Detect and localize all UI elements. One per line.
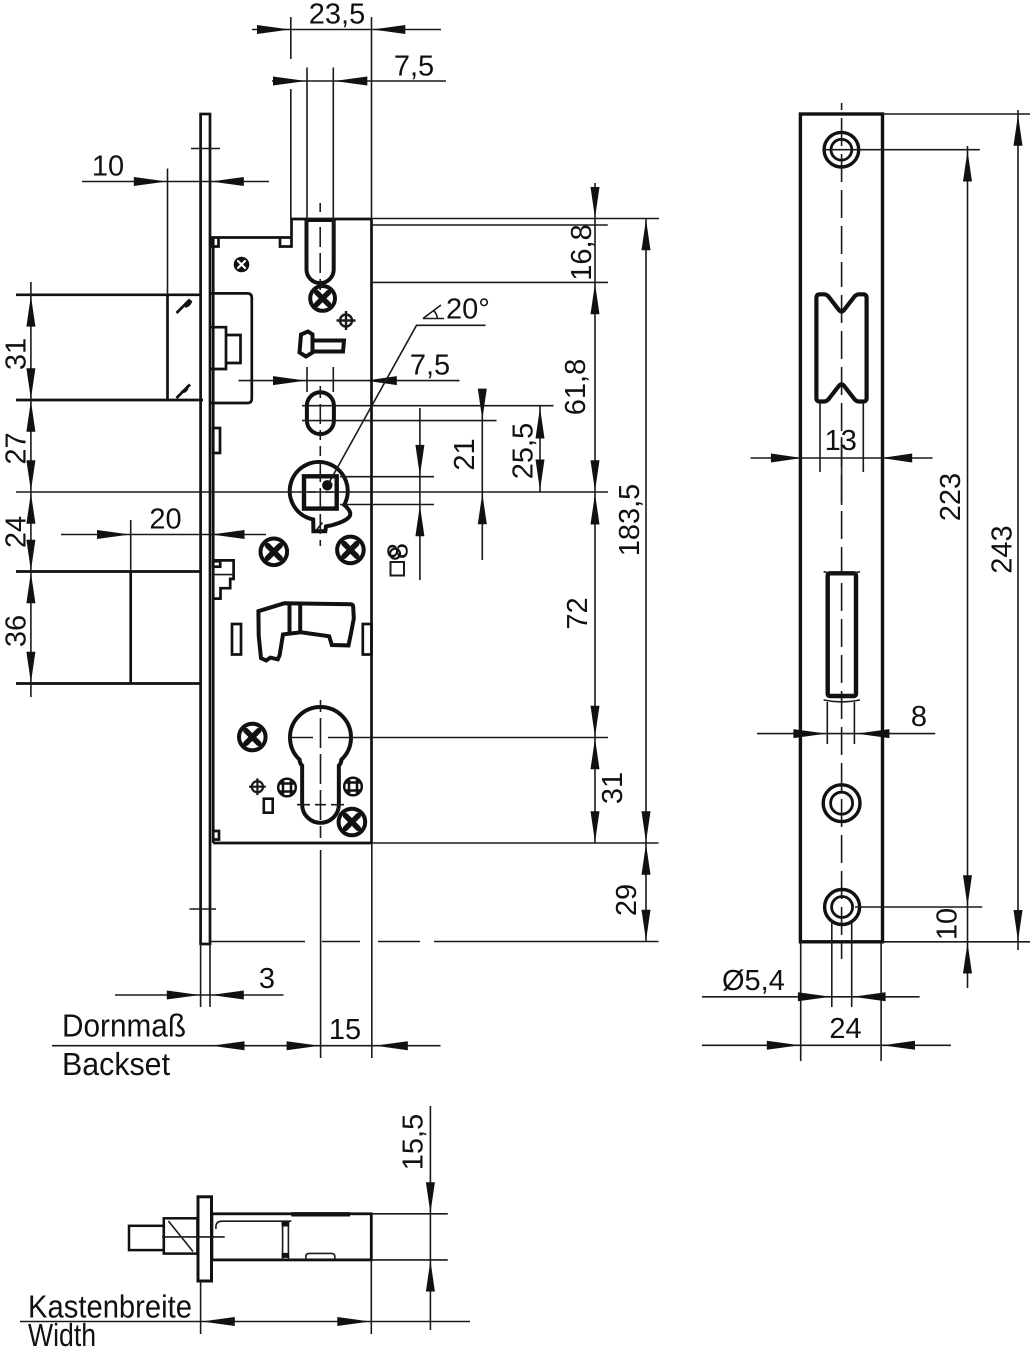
svg-text:7,5: 7,5 [410, 350, 450, 382]
arrow 16,8 top [591, 187, 600, 218]
dim 23,5 line [252, 29, 441, 31]
faceplate bottom cap [199, 943, 211, 946]
cylinder center vertical dashes [320, 700, 322, 838]
screw mid-left (phillips) [261, 539, 288, 566]
change lever divider 2 [298, 604, 302, 632]
svg-text:31: 31 [1, 338, 33, 370]
follower dot [322, 480, 332, 490]
svg-text:Width: Width [28, 1317, 96, 1352]
angle symbol [423, 305, 444, 319]
svg-text:21: 21 [449, 438, 481, 470]
arrow 31low top [591, 738, 600, 769]
svg-text:10: 10 [932, 908, 964, 940]
staircase stop outline [213, 560, 233, 598]
screw lower-right (phillips) [339, 809, 366, 836]
bottom latch tail [129, 1226, 164, 1250]
dim line x595 [594, 183, 596, 843]
bottom case inner line [216, 1221, 291, 1229]
left chain line [30, 282, 32, 697]
bottom case outline [212, 1214, 371, 1260]
dim 8 exts [827, 702, 854, 744]
plate bottom ext right [883, 941, 1031, 943]
dim 21 arrows [478, 389, 487, 420]
svg-text:10: 10 [92, 151, 124, 183]
lower block top line (ext to left) [16, 570, 200, 573]
arrow 243 top [1014, 115, 1023, 146]
cylinder stem arc-center dash [297, 804, 344, 806]
case raised top edge [292, 218, 372, 221]
slot bottom flare [824, 700, 860, 702]
svg-text:7,5: 7,5 [394, 51, 434, 83]
plate center ext below cutout [841, 437, 843, 505]
case slot upper left [213, 428, 220, 453]
faceplate tick bottom [190, 908, 217, 910]
svg-text:243: 243 [987, 525, 1019, 573]
svg-text:61,8: 61,8 [560, 359, 592, 415]
oval center ext upper [302, 405, 554, 407]
dim 21 line [481, 406, 483, 560]
svg-text:Backset: Backset [62, 1046, 170, 1082]
dim 15 arrow [375, 1041, 408, 1050]
arrow 223 bottom [963, 875, 972, 906]
slot cutout [828, 573, 856, 696]
svg-text:8: 8 [911, 701, 927, 733]
kastenbreite dim line [20, 1321, 470, 1323]
slot top flare [824, 572, 860, 575]
dim 15,5 exts [371, 1214, 448, 1260]
svg-text:23,5: 23,5 [309, 0, 365, 31]
plate outline [800, 114, 882, 942]
dim 24 line [702, 1044, 951, 1046]
faceplate top cap [199, 113, 211, 116]
dim 13 exts [820, 403, 863, 472]
dim sq8 arrows [415, 445, 424, 476]
screw mid-right (phillips) [337, 537, 364, 564]
mid screw hole inner [831, 792, 853, 814]
change lever outline [258, 603, 353, 660]
lower block left edge [129, 572, 132, 684]
dia 5,4 line [702, 996, 920, 998]
lower block bottom line (ext to left) [16, 682, 200, 685]
follower center long line [16, 491, 608, 493]
svg-text:36: 36 [1, 615, 33, 647]
bottom center tick [162, 1236, 225, 1238]
case bottom-left small notch [213, 831, 219, 840]
dim line x646 [645, 219, 647, 942]
dia 5,4 exts [832, 920, 852, 1007]
staircase inner line [214, 574, 233, 576]
bottom faceplate bar [198, 1197, 212, 1281]
kastenbreite arrows [202, 1317, 235, 1326]
case slot mid left [232, 624, 241, 655]
angle leader diagonal [328, 325, 485, 484]
follower tab notch mark [317, 523, 323, 531]
svg-text:Ø5,4: Ø5,4 [722, 965, 785, 997]
kastenbreite ext left [200, 1281, 202, 1334]
upper block break mark bottom [177, 385, 191, 399]
oval center dashes [319, 386, 321, 440]
oval center ext lower [302, 420, 497, 422]
bottom latch head [164, 1218, 198, 1253]
dim 7,5 lower line [239, 380, 460, 382]
dim sq8 square symbol [391, 562, 405, 576]
arrow 29 bottom [642, 910, 651, 941]
arrow 183,5 top [642, 219, 651, 250]
case top-left edge [210, 236, 292, 239]
follower circle and tab [290, 462, 351, 531]
follower square dashes [308, 446, 333, 546]
staircase stop top notch [213, 561, 220, 567]
bottom thick top band [291, 1212, 350, 1216]
kastenbreite ext right [370, 1260, 372, 1334]
latch head inner step [226, 335, 241, 363]
crosshair circle upper [337, 311, 356, 330]
case top notch left [213, 238, 219, 247]
dia 5,4 arrows [798, 992, 831, 1001]
mid screw hole outer [823, 785, 860, 822]
dim 20 line [61, 534, 266, 536]
follower square [304, 476, 337, 508]
hatched screw hole left [278, 779, 296, 797]
faceplate left edge [199, 114, 202, 944]
bottom latch bevel [168, 1221, 193, 1252]
hatched screw hole right [344, 778, 362, 796]
dim 10 ext [167, 169, 169, 295]
svg-text:29: 29 [611, 884, 643, 916]
arrow 29 top [642, 844, 651, 875]
svg-text:15,5: 15,5 [398, 1114, 430, 1170]
dim 13 line [751, 457, 933, 459]
dim 7,5 ext left [306, 68, 308, 259]
ext y225 [372, 224, 608, 226]
crosshair circle lower [249, 778, 266, 795]
backset arrows [212, 1041, 245, 1050]
top screw center line right [824, 149, 980, 151]
arrow 223 top [963, 151, 972, 182]
ext y941.5 [210, 941, 659, 943]
backset dim line [52, 1045, 441, 1047]
upper housing block bottom line (ext to left) [16, 399, 203, 402]
arrow 31low bottom [591, 811, 600, 842]
dim 20 ext [130, 520, 132, 572]
cylinder center ext down [320, 850, 322, 1058]
plate bottom exts down [801, 942, 881, 1061]
dim 20 arrows [97, 530, 130, 539]
latch guide box [211, 293, 252, 403]
screw top (phillips) [310, 286, 335, 311]
small rect lower [264, 799, 273, 813]
small circle right of screws [390, 549, 400, 559]
case slot mid right [363, 624, 372, 655]
latch bolt (thick U) [307, 220, 334, 283]
dim sq8 exts [340, 477, 434, 505]
chain arrows 31 [26, 296, 35, 327]
upper housing block top line (ext to left) [16, 293, 200, 296]
dim 24 arrows [767, 1041, 800, 1050]
svg-text:223: 223 [935, 473, 967, 521]
arrow 72 bottom [591, 706, 600, 737]
svg-text:15: 15 [329, 1014, 361, 1046]
arrow 61,8 top [591, 283, 600, 314]
svg-text:3: 3 [259, 963, 275, 995]
bottom divider lines [283, 1221, 289, 1260]
latch spring knob [300, 332, 313, 357]
ext y843 [372, 842, 659, 844]
svg-text:20°: 20° [446, 294, 490, 326]
arrow 72 top [591, 494, 600, 525]
plate center dashed axis [841, 103, 843, 959]
cylinder center cross dash [290, 737, 351, 739]
svg-text:20: 20 [149, 504, 181, 536]
case top notch right [280, 238, 292, 247]
arrow 243 bottom [1014, 910, 1023, 941]
small filled screw top-left [234, 257, 250, 273]
svg-text:25,5: 25,5 [508, 423, 540, 479]
chain arrows 27 [26, 401, 35, 432]
chain arrows 36 [26, 572, 35, 603]
ext y282.4 [372, 281, 609, 283]
svg-text:Dornmaß: Dornmaß [62, 1008, 186, 1044]
bottom screw center line right [855, 906, 982, 908]
svg-text:13: 13 [825, 425, 857, 457]
dim 10 arrows [134, 177, 167, 186]
dim 7,5 top line [272, 80, 446, 82]
svg-text:183,5: 183,5 [614, 484, 646, 557]
latch head outer step [211, 327, 226, 369]
case left edge [212, 238, 215, 844]
latch spring bar [313, 341, 345, 352]
screw lower-left (phillips) [239, 724, 266, 751]
upper block left divider [166, 295, 169, 400]
ext y737.5 [352, 737, 608, 739]
dim 15,5 arrows [426, 1182, 435, 1213]
bottom screw hole outer [825, 890, 860, 925]
dim 7,5 lower arrows [273, 376, 306, 385]
arrow 61,8 bottom [591, 460, 600, 491]
arrow 183,5 bottom [642, 811, 651, 842]
latch bolt center dashes [319, 203, 321, 290]
dim 15,5 line [429, 1106, 431, 1330]
dim 7,5 arrows [273, 77, 306, 86]
case step vertical [290, 219, 293, 238]
faceplate right edge [209, 114, 212, 944]
svg-text:31: 31 [597, 772, 629, 804]
dim 223/10 line [967, 146, 969, 988]
dim 13 arrows [771, 454, 802, 463]
dim 3 line [115, 994, 284, 996]
plate top ext right [883, 113, 1031, 115]
dim 8 arrows [793, 729, 826, 738]
dim 8 line [757, 733, 935, 735]
chain arrows 24 [26, 493, 35, 524]
dim 243 line [1017, 110, 1019, 950]
case right edge [370, 219, 373, 843]
cylinder keyhole outline [290, 707, 351, 823]
dim 25,5 line [539, 406, 541, 493]
dim 23,5 ext right / case edge extension up [371, 17, 373, 219]
svg-text:16,8: 16,8 [566, 224, 598, 280]
svg-text:24: 24 [1, 516, 33, 548]
V cutout [816, 294, 866, 401]
case right ext down [371, 843, 373, 1058]
oval slot [307, 392, 334, 434]
svg-text:27: 27 [1, 432, 33, 464]
bottom screw hole inner [832, 897, 853, 918]
dim 3 arrows [167, 991, 200, 1000]
bottom divider end marks [282, 1222, 290, 1258]
change lever divider 1 [288, 603, 292, 633]
bottom tab bump [306, 1253, 335, 1260]
top screw hole inner [831, 139, 852, 160]
dim 10 line [82, 181, 269, 183]
dim sq8 line [419, 408, 421, 580]
svg-text:24: 24 [829, 1013, 861, 1045]
dim 25,5 arrows [536, 408, 545, 439]
svg-text:72: 72 [562, 597, 594, 629]
dim 23,5 arrows [257, 25, 290, 34]
ext y218.5 [372, 218, 660, 220]
upper block break mark top [177, 300, 192, 314]
top screw hole outer [824, 132, 859, 167]
svg-text:8: 8 [383, 543, 415, 559]
faceplate tick top [191, 148, 220, 150]
arrow 10 bottom [963, 943, 972, 974]
case bottom edge [213, 842, 371, 845]
dim 7,5 ext right [332, 68, 334, 259]
dim 23,5 ext left [290, 17, 292, 219]
dim 7,5 lower exts [307, 367, 333, 392]
faceplate ext bottom left [201, 944, 210, 1007]
